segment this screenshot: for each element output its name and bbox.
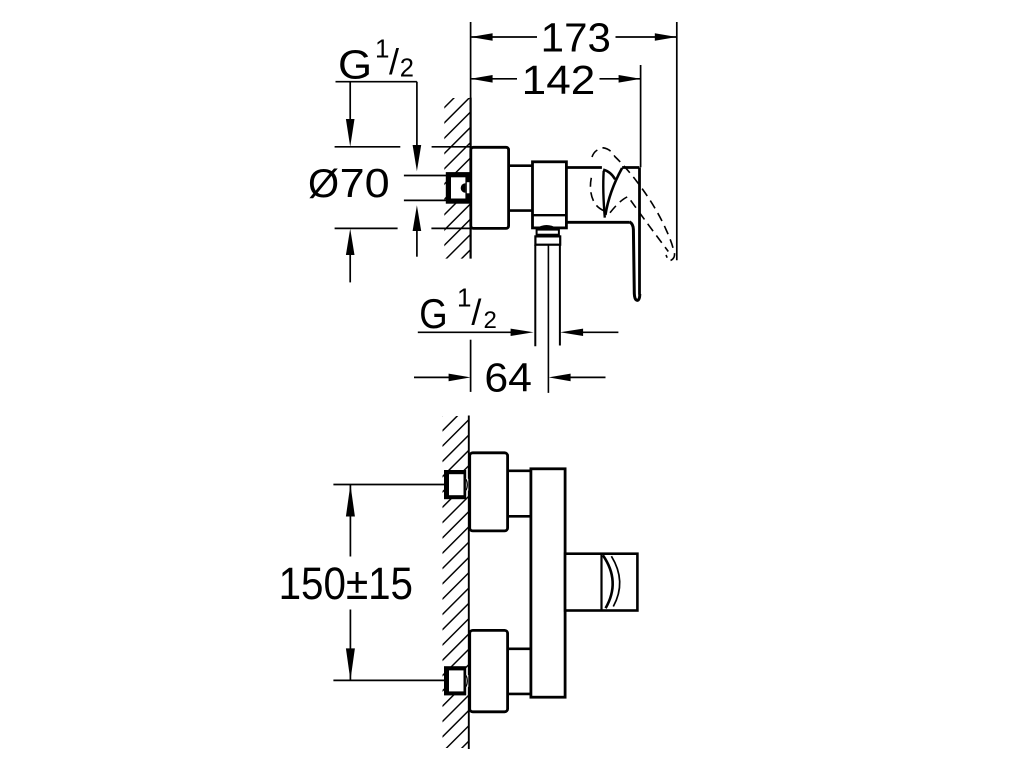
escutcheon block 1: [470, 453, 508, 531]
handle blade: [629, 222, 639, 301]
arrowhead 150 bottom: [346, 648, 355, 680]
supply/extension line bottom: [333, 679, 444, 681]
right extension line for 142: [640, 65, 642, 167]
svg-text:G: G: [338, 41, 372, 87]
connector 1: [508, 471, 531, 517]
leader underline G1/2 top: [336, 81, 417, 83]
extension line y=146.8: [335, 146, 470, 148]
wall hatch (bottom view): [443, 416, 469, 748]
svg-text:64: 64: [484, 355, 532, 401]
extension line y=228.4: [335, 227, 470, 229]
knob divider line: [600, 554, 602, 611]
hose right line: [559, 245, 561, 346]
64 dimension left arrow: [414, 376, 450, 378]
handle rear edge: [603, 171, 604, 218]
svg-text:150±15: 150±15: [279, 558, 413, 609]
G1/2 bottom leader line: [418, 331, 512, 333]
svg-text:Ø: Ø: [308, 162, 339, 206]
escutcheon block 2: [470, 630, 508, 711]
arrowhead 142 right: [619, 75, 641, 83]
union nut 2 (bottom view): [444, 666, 466, 695]
hose center line: [547, 245, 549, 393]
svg-text:/: /: [389, 41, 399, 82]
hose nut dome: [537, 226, 557, 229]
body (bottom view): [531, 469, 565, 697]
wall face line (top view): [470, 98, 472, 259]
dimension 150 line: [349, 485, 351, 681]
G1/2 up arrow (below nut): [416, 231, 418, 257]
diameter 70 up arrow: [349, 255, 351, 282]
dashed lever (raised position): [590, 148, 674, 261]
label G 1/2 (top): [338, 34, 414, 88]
knob lever arc inner: [603, 555, 613, 608]
hose left line: [534, 245, 536, 347]
union nut 1 (bottom view): [444, 470, 466, 499]
svg-text:70: 70: [340, 160, 390, 206]
left extension line (173/142): [470, 22, 472, 98]
svg-text:1: 1: [457, 283, 471, 313]
svg-text:1: 1: [375, 34, 389, 64]
svg-text:173: 173: [541, 14, 611, 60]
knob lever arc outer: [611, 556, 619, 606]
svg-text:142: 142: [522, 57, 596, 103]
right extension line for 173: [676, 22, 678, 260]
handle knob (bottom view): [565, 554, 637, 611]
label G 1/2 (bottom): [419, 283, 497, 337]
arrowhead 173 right: [655, 33, 677, 41]
hose nut ring 2: [535, 236, 560, 244]
union nut (top view): [446, 172, 470, 204]
connector 2: [508, 649, 531, 694]
svg-text:2: 2: [400, 54, 414, 82]
body block step line: [533, 214, 567, 216]
arrowhead 173 left: [471, 33, 493, 41]
supply pipe (top view): [404, 176, 447, 201]
diameter 70 down arrow: [349, 82, 351, 119]
handle front edge: [605, 168, 622, 215]
handle hub arc: [603, 170, 615, 180]
wall hatch (top view): [444, 98, 470, 259]
supply/extension line top: [333, 484, 444, 486]
connector cylinder: [509, 166, 533, 211]
G1/2 leader down arrow: [416, 82, 418, 145]
svg-text:/: /: [471, 292, 481, 333]
dashed hub dome + rear edge to tip: [592, 148, 675, 261]
svg-text:2: 2: [484, 307, 497, 334]
dimension line 173: [472, 36, 677, 38]
arrowhead 150 top: [346, 485, 355, 517]
body block: [533, 162, 567, 228]
arrowhead 142 left: [471, 75, 493, 83]
hose nut ring 1: [537, 230, 559, 235]
64 dimension right arrow: [549, 374, 571, 382]
64 extension line at wall: [470, 340, 472, 392]
G1/2 bottom left arrow from right side: [560, 329, 583, 336]
cartridge housing: [566, 168, 639, 295]
G1/2 bottom right arrow to hose: [511, 329, 534, 336]
dashed front edge: [610, 197, 668, 252]
wall face line (bottom view): [468, 416, 470, 750]
escutcheon (top view): [471, 147, 509, 228]
svg-text:G: G: [419, 290, 447, 337]
dimension line 142: [472, 78, 641, 80]
dashed hub bottom arc: [590, 178, 605, 212]
